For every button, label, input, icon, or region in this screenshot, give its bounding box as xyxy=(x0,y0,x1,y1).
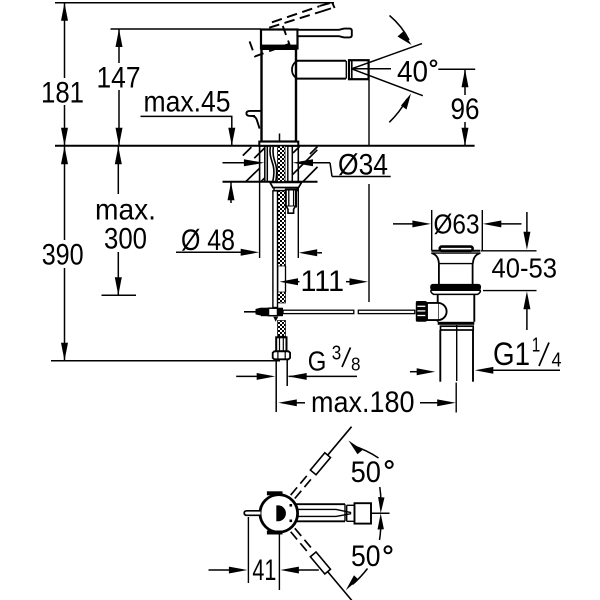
svg-text:147: 147 xyxy=(97,62,141,95)
arc arrow upper (spout swivel) xyxy=(390,16,412,46)
svg-text:300: 300 xyxy=(104,223,147,256)
floor reference line (390) xyxy=(51,360,280,362)
hose curve in hole xyxy=(270,147,274,181)
lever rotated -50 (dashed, lower) xyxy=(290,528,355,600)
dimension 96 xyxy=(438,69,479,146)
svg-text:Ø34: Ø34 xyxy=(338,149,388,182)
50 deg arc upper xyxy=(349,441,393,514)
40-53 extension lines xyxy=(481,250,537,252)
deck hole edges xyxy=(264,146,266,182)
braided hose segment 2 xyxy=(278,292,286,303)
valve nut ring xyxy=(441,326,474,330)
arc arrow lower (spout swivel) xyxy=(389,94,411,123)
locknut xyxy=(270,182,302,187)
svg-text:1: 1 xyxy=(532,335,541,357)
deck hatching xyxy=(243,147,318,182)
lever rotated +50 (dashed, upper) xyxy=(290,424,354,499)
spout stub (left) xyxy=(244,511,260,516)
pop-up horizontal rod xyxy=(283,310,354,313)
dimension 111 xyxy=(280,265,369,298)
deck top line xyxy=(55,145,475,147)
svg-text:4: 4 xyxy=(552,350,562,372)
valve top plug xyxy=(440,247,473,251)
pop-up vertical rod xyxy=(273,191,278,308)
valve body xyxy=(437,294,439,322)
braided hose in deck xyxy=(278,146,286,182)
lever knob xyxy=(355,503,372,523)
dimension 390 xyxy=(42,146,84,361)
svg-text:41: 41 xyxy=(252,554,276,587)
dimension 147 xyxy=(97,29,141,146)
faucet base flange xyxy=(259,142,298,146)
screw dots xyxy=(290,504,293,507)
reference line cap top (147) xyxy=(111,28,262,30)
spout groove xyxy=(345,61,347,79)
valve flange (white) xyxy=(431,290,480,294)
lever base D mark xyxy=(276,505,286,521)
side port housing xyxy=(427,303,438,320)
dimension max. 300 xyxy=(95,146,156,295)
hose plain section xyxy=(277,266,279,292)
dimension O48 xyxy=(176,182,322,258)
label G1 1/4 xyxy=(410,335,562,376)
label 40 deg xyxy=(397,56,436,89)
spray fan lines 40deg xyxy=(352,44,423,96)
svg-text:8: 8 xyxy=(351,354,361,374)
svg-text:96: 96 xyxy=(451,93,480,126)
deck bottom line xyxy=(223,181,318,183)
svg-text:G: G xyxy=(308,345,327,376)
faucet cap xyxy=(261,30,298,49)
svg-text:G1: G1 xyxy=(493,336,530,372)
O63 extension lines xyxy=(431,210,433,251)
dimension O63 xyxy=(393,208,522,239)
50 deg arc lower xyxy=(346,513,392,590)
spray hook (left) xyxy=(246,111,261,116)
shank wall right xyxy=(287,146,289,182)
faucet cap thick base band xyxy=(261,45,299,49)
valve head xyxy=(431,251,480,284)
svg-text:max.180: max.180 xyxy=(311,386,415,419)
knurled knob xyxy=(416,301,427,322)
faucet lever (solid) xyxy=(298,29,352,38)
valve bottom black band xyxy=(438,322,475,325)
shank through-deck outline lines xyxy=(259,146,261,182)
top view body circle xyxy=(260,495,298,533)
svg-text:40: 40 xyxy=(397,56,428,89)
pop-up rod connector xyxy=(244,308,283,322)
svg-text:40-53: 40-53 xyxy=(492,253,558,284)
hose crimp sleeve xyxy=(276,337,286,351)
svg-text:3: 3 xyxy=(332,343,342,365)
centerline xyxy=(371,512,390,514)
dimension 181 xyxy=(41,3,84,146)
svg-text:50: 50 xyxy=(351,540,381,573)
tailpipe centerline xyxy=(456,325,458,381)
svg-text:max.45: max.45 xyxy=(144,85,231,118)
G3/8 connector tube xyxy=(275,359,277,412)
dimension max.180 xyxy=(278,383,456,420)
svg-text:50: 50 xyxy=(351,456,381,489)
reference line top (raised lever height) xyxy=(55,2,334,4)
dimension 41 xyxy=(209,517,319,590)
faucet cap raised (dashed) xyxy=(249,26,290,56)
svg-text:390: 390 xyxy=(42,238,84,271)
pop-up rod inside body xyxy=(279,134,281,146)
rod guide fitting xyxy=(286,190,296,207)
dimension max.45 xyxy=(141,85,236,203)
mounting tab bottom xyxy=(267,531,283,535)
hose hex nut xyxy=(273,351,290,359)
spout xyxy=(296,61,346,79)
dimension O34 xyxy=(223,149,391,182)
extension line aerator (111/spray) xyxy=(368,80,370,146)
svg-text:181: 181 xyxy=(41,77,84,110)
faucet lever raised (dashed) xyxy=(269,3,334,28)
mounting tab top xyxy=(267,491,283,495)
svg-text:Ø63: Ø63 xyxy=(434,208,480,239)
braided hose below deck xyxy=(278,191,286,266)
label G3/8 xyxy=(236,343,360,380)
tailpipe xyxy=(439,330,441,382)
dimension 40-53 xyxy=(492,212,558,330)
aerator xyxy=(349,60,369,79)
faucet body xyxy=(262,49,297,142)
braided hose segment 3 xyxy=(278,321,286,337)
lever connector xyxy=(346,505,348,521)
valve seal flange (black) xyxy=(430,284,481,290)
top view lever arm xyxy=(295,503,390,523)
svg-text:111: 111 xyxy=(301,265,345,298)
